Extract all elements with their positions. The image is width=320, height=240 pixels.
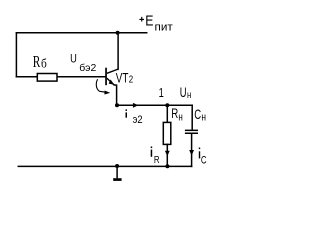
wire: Cn bottom stem to ground rail corner <box>191 134 193 166</box>
wire: resistor to transistor base <box>57 76 106 78</box>
annotation: arrow of current i_e2 on output wire <box>133 103 139 108</box>
svg-text:н: н <box>201 112 206 124</box>
junction: emitter output node <box>115 103 119 107</box>
wire: top supply rail <box>16 32 146 34</box>
capacitor Cn top plate <box>185 130 198 132</box>
wire: Rn bottom lead to ground rail <box>166 144 168 166</box>
annotation: arrow of current i_C <box>189 150 194 156</box>
resistor Rn body <box>163 122 171 144</box>
svg-text:н: н <box>178 112 182 124</box>
transistor VT2 base bar <box>105 68 107 86</box>
ground symbol stem <box>116 166 118 178</box>
svg-text:VT: VT <box>116 70 129 86</box>
svg-text:н: н <box>187 89 191 101</box>
wire: horizontal from emitter node to capacitor corner <box>117 104 193 106</box>
capacitor Cn bottom plate <box>185 133 198 135</box>
label i_R (resistor current): i drawn as dot+stem <box>151 147 153 149</box>
svg-text:R: R <box>171 105 178 121</box>
svg-text:R: R <box>154 155 160 166</box>
wire: Rn top lead <box>166 105 168 122</box>
resistor R6 body <box>37 74 57 82</box>
svg-text:C: C <box>201 154 207 166</box>
svg-text:1: 1 <box>159 85 164 100</box>
label i_C (capacitor current): i drawn as dot+stem <box>199 148 200 150</box>
svg-text:E: E <box>145 13 153 30</box>
annotation: curved arrow base to emitter <box>96 79 105 92</box>
junction: ground node on bottom rail <box>115 164 119 168</box>
svg-text:э2: э2 <box>133 114 143 126</box>
svg-text:U: U <box>70 52 77 66</box>
svg-text:пит: пит <box>155 22 173 34</box>
transistor VT2 collector lead <box>107 69 118 73</box>
wire: Cn top stem <box>191 105 193 129</box>
wire: collector vertical from top rail <box>117 33 119 70</box>
svg-text:бэ2: бэ2 <box>79 62 96 74</box>
wire: left vertical of base bias loop <box>15 33 17 77</box>
junction: node 1 (Rn tap) <box>165 103 169 107</box>
junction: collector node on top rail <box>116 31 120 35</box>
label i_e2 (emitter current): i drawn as dot+stem <box>126 109 128 111</box>
ground symbol bar <box>113 178 121 181</box>
wire: emitter vertical down to output node <box>114 85 117 105</box>
wire: base wire from loop to resistor <box>16 76 37 78</box>
svg-text:2: 2 <box>129 75 134 86</box>
wire: bottom ground rail <box>18 165 191 167</box>
svg-text:U: U <box>180 84 187 100</box>
svg-text:C: C <box>194 106 201 122</box>
junction: Rn bottom node <box>165 164 169 168</box>
label +Epit (supply): plus sign <box>139 19 144 20</box>
svg-text:б: б <box>41 57 47 71</box>
transistor VT2 emitter arrowhead <box>109 80 115 85</box>
svg-text:R: R <box>33 52 41 71</box>
annotation: arrow of current i_R <box>165 151 170 157</box>
transistor VT2 emitter lead <box>107 78 114 85</box>
